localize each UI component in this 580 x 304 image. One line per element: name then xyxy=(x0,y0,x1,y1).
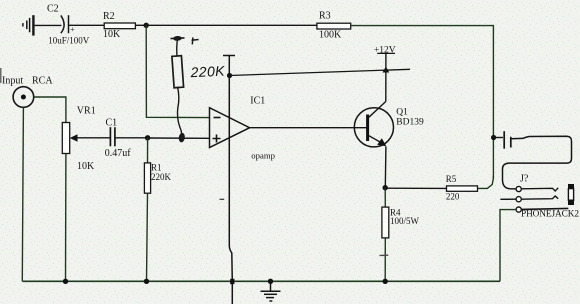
node opamp pin/ground (square blob) xyxy=(230,279,234,284)
resistor R2 xyxy=(104,23,135,29)
hand-drawn wire blob to resistor xyxy=(176,41,178,56)
svg-text:IC1: IC1 xyxy=(250,96,265,107)
Q1 collector stroke xyxy=(369,102,386,118)
phone jack tip contact xyxy=(516,186,521,191)
wire R1 bottom down xyxy=(147,193,148,281)
wire R3 to right rail corner xyxy=(351,26,494,179)
ring stub wire left xyxy=(500,198,516,200)
wire emitter down to node D xyxy=(384,147,387,188)
coupling capacitor plates xyxy=(504,131,511,149)
svg-text:Q1: Q1 xyxy=(396,107,408,117)
wire R5 right up to rail xyxy=(478,176,494,188)
wire VR1 bottom down xyxy=(65,154,67,282)
svg-text:+12V: +12V xyxy=(374,46,396,56)
wire diagonal node C to +12V rail xyxy=(230,69,411,75)
svg-text:0.47uf: 0.47uf xyxy=(105,148,132,159)
svg-text:10uF/100V: 10uF/100V xyxy=(48,35,90,45)
node B (C1/R1 junction) xyxy=(145,135,150,140)
VR1 wiper arrow xyxy=(70,134,78,141)
node D (emitter/R4/R5 junction) xyxy=(383,185,388,190)
node A (R2/R3 junction) xyxy=(144,23,149,28)
wire node B to op-amp non-inverting input xyxy=(148,137,210,139)
wire wiper to C1 xyxy=(78,137,110,139)
op-amp vertical line through (power/feedback rail) xyxy=(229,56,232,304)
svg-text:C2: C2 xyxy=(47,3,59,14)
wire +12V down to collector xyxy=(385,54,387,102)
ground symbol xyxy=(261,281,281,301)
wire C1 to node B xyxy=(115,137,148,139)
jack barrel xyxy=(568,184,574,205)
wire C2 to R2 xyxy=(69,24,105,26)
svg-text:C1: C1 xyxy=(106,118,118,129)
op-amp plus sign xyxy=(213,135,221,143)
svg-text:220K: 220K xyxy=(151,172,172,182)
RCA connector J (outer ring) xyxy=(13,87,34,108)
resistor R3 xyxy=(317,23,351,29)
Q1 emitter stroke with arrow xyxy=(369,136,383,144)
node VR1/ground xyxy=(63,279,68,284)
pencil tick on emitter wire xyxy=(380,254,389,256)
sleeve wire to ground rail xyxy=(500,210,516,282)
svg-text:100K: 100K xyxy=(319,30,342,41)
node R1/ground xyxy=(144,279,149,284)
hand-drawn wire resistor to node B wire xyxy=(178,87,182,134)
svg-text:220: 220 xyxy=(446,191,460,201)
svg-text:VR1: VR1 xyxy=(77,106,96,117)
tip switch wire xyxy=(521,188,558,191)
hand-drawn blob under top wire xyxy=(171,36,185,40)
pin tick on op-amp rail xyxy=(220,198,225,200)
wire loop cap to phone jack tip xyxy=(503,136,572,189)
hand-drawn solder blob on + input wire xyxy=(178,132,185,142)
op-amp U1 triangle xyxy=(210,108,250,148)
phone jack ring contact xyxy=(516,197,521,202)
sleeve wire to barrel xyxy=(521,208,568,209)
svg-text:10K: 10K xyxy=(103,29,121,40)
node C (diagonal takeoff) xyxy=(227,73,232,78)
svg-text:100/5W: 100/5W xyxy=(390,216,420,226)
wire node E to coupling cap xyxy=(494,137,503,139)
potentiometer VR1 xyxy=(62,123,69,154)
wire node D to R4 xyxy=(384,188,386,207)
svg-text:220K: 220K xyxy=(189,63,225,81)
svg-text:Input: Input xyxy=(2,76,23,87)
+12V underline xyxy=(377,52,395,54)
wire R2 to node A xyxy=(135,24,146,26)
node ground symbol xyxy=(268,279,273,284)
svg-text:opamp: opamp xyxy=(251,150,275,160)
Q1 base bar xyxy=(366,115,369,142)
svg-text:PHONEJACK2: PHONEJACK2 xyxy=(521,209,579,219)
hand-drawn resistor 220K xyxy=(172,56,184,88)
transistor Q1 xyxy=(354,108,393,147)
bottom ground wire xyxy=(22,280,500,282)
phone jack sleeve contact xyxy=(516,207,521,212)
svg-text:R3: R3 xyxy=(319,10,331,21)
svg-text:R2: R2 xyxy=(103,11,115,22)
svg-text:BD139: BD139 xyxy=(396,117,424,127)
scan artifact left edge strips xyxy=(0,68,2,83)
resistor R1 xyxy=(147,138,149,163)
resistor R4 xyxy=(382,207,389,238)
svg-text:RCA: RCA xyxy=(32,76,53,87)
wire RCA to VR1 top xyxy=(34,97,66,123)
wire R4 bottom down xyxy=(384,238,386,281)
svg-text:J?: J? xyxy=(520,173,529,184)
wire node A to R3 xyxy=(146,24,317,26)
ground (rotated bars) at C2 left xyxy=(23,15,34,35)
wire ground to C2 xyxy=(35,24,62,26)
wire op-amp output to Q1 base xyxy=(250,127,367,129)
capacitor C1 xyxy=(110,127,115,146)
op-amp power stub T xyxy=(223,55,235,57)
junction x-mark at +12V crossing xyxy=(383,67,390,73)
RCA center pin xyxy=(21,95,26,100)
feedback wire: node A down to op-amp inverting input xyxy=(146,25,209,117)
node R4/ground xyxy=(383,279,388,284)
svg-text:10K: 10K xyxy=(77,161,95,172)
op-amp minus sign xyxy=(214,117,221,119)
hand-drawn plus mark xyxy=(192,37,199,44)
wire RCA ground down xyxy=(22,107,23,281)
ring switch wire xyxy=(521,196,558,199)
resistor R5 xyxy=(447,186,478,191)
wire node D to R5 xyxy=(385,187,446,189)
node E (output takeoff on rail) xyxy=(491,135,496,140)
svg-text:R5: R5 xyxy=(446,174,457,184)
capacitor C2 xyxy=(61,15,69,33)
svg-text:+: + xyxy=(70,25,75,34)
